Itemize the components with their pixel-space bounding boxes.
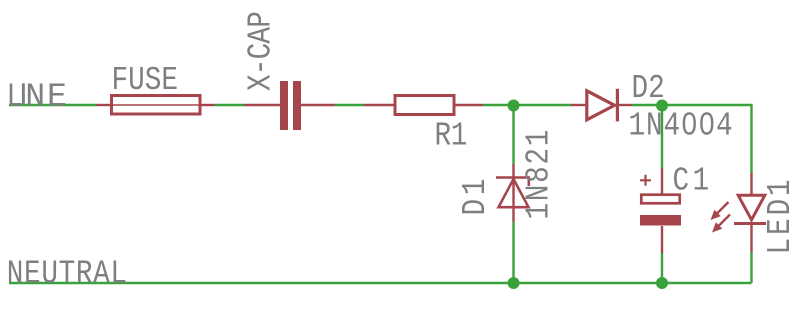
zener D1 cathode bar with hook bbox=[496, 178, 529, 187]
svg-text:LED1: LED1 bbox=[763, 177, 800, 255]
wire fuse to xcap bbox=[215, 104, 244, 106]
svg-text:C1: C1 bbox=[673, 163, 713, 200]
capacitor X-CAP left pin bbox=[244, 104, 280, 106]
junction node D1/neutral bbox=[508, 277, 520, 289]
resistor R1 left pin bbox=[364, 104, 394, 106]
diode D2 cathode bar bbox=[616, 89, 619, 122]
zener D1 triangle bbox=[499, 179, 529, 207]
capacitor X-CAP left plate bbox=[280, 81, 288, 130]
svg-text:NEUTRAL: NEUTRAL bbox=[7, 256, 128, 293]
LED LED1 bottom pin bbox=[750, 225, 752, 252]
wire xcap to R1 bbox=[335, 104, 364, 106]
junction node at R1/D1/D2 bbox=[508, 100, 520, 112]
wire LINE left segment bbox=[9, 104, 96, 106]
LED arrow 1 bbox=[711, 202, 729, 220]
zener D1 pin bbox=[512, 164, 514, 222]
cover zero dots of 1N4004 bbox=[687, 121, 693, 127]
fuse F right pin bbox=[200, 104, 215, 106]
svg-text:1N4004: 1N4004 bbox=[629, 108, 734, 145]
svg-text:FUSE: FUSE bbox=[112, 63, 179, 100]
svg-text:X-CAP: X-CAP bbox=[243, 12, 280, 91]
svg-text:1N821: 1N821 bbox=[521, 128, 558, 220]
svg-text:D1: D1 bbox=[458, 175, 495, 216]
capacitor C1 top pin bbox=[661, 168, 663, 195]
junction node C1/neutral bbox=[656, 277, 668, 289]
diode D2 triangle bbox=[587, 91, 615, 120]
capacitor C1 top plate bbox=[641, 195, 679, 204]
svg-text:L: L bbox=[7, 79, 24, 116]
LED arrow 2 bbox=[712, 215, 730, 233]
wire D1 top bbox=[512, 105, 514, 164]
wire LED bottom bbox=[750, 252, 752, 283]
diode D2 left pin bbox=[571, 104, 586, 106]
capacitor X-CAP right plate bbox=[293, 81, 301, 130]
svg-text:R1: R1 bbox=[435, 118, 467, 155]
svg-text:NE: NE bbox=[25, 77, 68, 115]
resistor R1 right pin bbox=[453, 104, 483, 106]
wire D2 to top-right corner bbox=[632, 105, 752, 173]
resistor R1 body bbox=[395, 96, 454, 115]
fuse FUSE body bbox=[112, 96, 201, 115]
wire NEUTRAL bottom bbox=[9, 282, 752, 284]
capacitor C1 bottom pin bbox=[661, 226, 663, 253]
LED LED1 top pin bbox=[750, 173, 752, 194]
capacitor X-CAP right pin bbox=[301, 104, 335, 106]
plus sign C1 bbox=[640, 175, 651, 186]
diode D2 right pin bbox=[619, 104, 632, 106]
LED LED1 triangle bbox=[738, 195, 765, 220]
fuse element line bbox=[111, 104, 200, 106]
LED LED1 cathode bar bbox=[734, 222, 766, 225]
wire C1 top bbox=[661, 105, 663, 168]
wire C1 bottom bbox=[661, 253, 663, 283]
fuse F left pin bbox=[96, 104, 111, 106]
svg-text:D2: D2 bbox=[632, 71, 665, 108]
capacitor C1 bottom plate bbox=[640, 215, 681, 226]
wire D1 bottom bbox=[512, 222, 514, 283]
wire R1 to D2 bbox=[483, 104, 571, 106]
junction node D2/C1 bbox=[656, 100, 668, 112]
